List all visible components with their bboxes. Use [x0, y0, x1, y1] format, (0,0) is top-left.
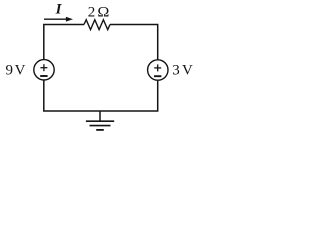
svg-text:2: 2 [88, 5, 96, 21]
label 3 V [172, 62, 193, 78]
svg-text:9: 9 [6, 62, 14, 78]
wire bottom-left segment [44, 80, 100, 111]
voltage source V2 (right, 3 V) [148, 60, 168, 80]
wire bottom-right segment [100, 80, 158, 111]
wire top-right segment (horizontal from resistor + right vertical down) [110, 25, 158, 60]
svg-text:I: I [55, 2, 63, 18]
wire top-left segment (left vertical up + horizontal to resistor) [44, 25, 84, 60]
ground [86, 111, 114, 130]
svg-text:3: 3 [172, 62, 180, 78]
resistor 2 ohm zigzag [84, 20, 110, 30]
current label I [55, 2, 63, 18]
svg-text:V: V [15, 62, 26, 78]
voltage source V1 (left, 9 V) [34, 60, 54, 80]
svg-text:Ω: Ω [97, 5, 109, 21]
current arrow I [44, 17, 73, 22]
svg-text:V: V [182, 62, 193, 78]
value label 2 Ω [88, 5, 110, 21]
label 9 V [6, 62, 26, 78]
